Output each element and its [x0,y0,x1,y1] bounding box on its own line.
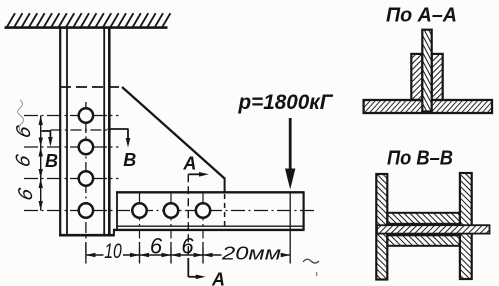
bottom dimension extension ticks [85,243,87,263]
arm right end cap [303,191,305,231]
hole row centre line 2 [24,146,119,148]
section B left end stroke [42,130,51,132]
scan noise squiggle bottom right [303,259,319,263]
rivet hole 4 (column) [79,203,93,217]
load line extension through arm [289,193,291,264]
column centre line (vertical dash-dot) [85,102,87,264]
section A-A flange plate (hatched) [364,100,492,113]
gusset hidden edge inside arm (dashed) [224,194,226,226]
rivet hole 2 (column) [79,140,93,154]
section B-B lower web (hatched) [387,235,460,246]
svg-text:По В–В: По В–В [387,147,453,169]
svg-text:В: В [123,150,136,170]
svg-text:6: 6 [181,234,194,259]
arm hole 1 centre line (vertical) [139,194,141,264]
gusset right vertical edge [224,178,226,194]
svg-text:р=1800кГ: р=1800кГ [238,90,334,114]
rivet hole 7 (arm) [196,203,210,217]
svg-text:А: А [182,153,196,173]
arm bottom edge [114,229,304,231]
section B-B left flange bar (hatched) [376,174,387,280]
section B right arrow [127,129,129,140]
svg-text:20мм: 20мм [221,244,281,264]
section A-A right angle block (hatched) [432,54,443,100]
arm inner bottom line [117,225,304,227]
ceiling hatching [7,13,170,27]
ceiling baseline [5,26,168,29]
section B-B right flange bar (hatched) [460,173,472,279]
column inner left flange line [66,28,68,234]
junction column/arm bottom [113,229,115,236]
dimension arrowheads left chain [39,116,43,126]
section A-A left angle block (hatched) [411,54,422,100]
column outer right flange line [108,28,111,236]
section A top arrow [188,173,200,175]
left dimension line [40,116,42,211]
column outer left flange line [59,28,61,236]
section B-B middle plate extending right (hatched) [377,225,490,233]
svg-text:В: В [45,151,58,171]
section A bottom bend [187,258,189,277]
arm hole 2 centre line (vertical) [170,194,172,264]
svg-text:По А–А: По А–А [386,4,457,26]
rivet hole 1 (column) [79,108,93,122]
svg-text:6: 6 [150,234,163,259]
gusset diagonal edge [122,87,225,179]
column bottom cap [59,234,115,237]
svg-text:10: 10 [104,240,122,263]
rivet hole 6 (arm) [164,203,178,217]
section B right end stroke [108,128,129,130]
scan noise squiggle top left [18,100,24,133]
column inner right flange line [103,28,105,234]
rivet hole 3 (column) [79,171,93,185]
arm top edge [116,191,304,193]
section B left arrow [49,131,51,140]
hole row centre line 1 [24,115,119,117]
section B-B upper web (hatched) [387,213,460,224]
arm hole 3 centre line (vertical) [202,194,204,264]
bottom row centre line (through column hole 4 and arm holes) [24,210,317,212]
gusset hidden top edge (dashed) [60,86,122,88]
svg-text:А: А [211,269,225,286]
section A-A cut line [187,174,189,258]
hole row centre line 3 [24,178,119,180]
arm left end cap [116,192,118,230]
bottom dimension line [86,254,104,256]
rivet hole 5 (arm) [132,203,146,217]
section B-B cut line [50,129,107,131]
load arrow P [289,118,292,181]
bottom dimension arrowheads [86,253,96,257]
section A-A vertical stem plate (hatched) [422,30,431,112]
